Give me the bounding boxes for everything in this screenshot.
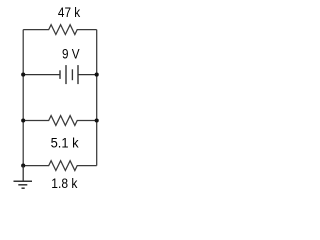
node: junction dot right middle row: [95, 118, 99, 122]
wire: battery right lead: [78, 74, 97, 76]
wire: right rail: [96, 30, 98, 166]
ground: [14, 166, 33, 189]
resistor 5.1 k (middle branch): [23, 116, 97, 126]
ground bar 3: [22, 187, 25, 189]
resistor 1.8 k (bottom branch): [23, 161, 97, 171]
node: junction dot right battery row: [95, 73, 99, 77]
battery plate medium: [71, 69, 73, 80]
battery 9 V: [23, 65, 97, 84]
wire: battery left lead: [23, 74, 60, 76]
svg-text:47 k: 47 k: [58, 4, 81, 20]
battery plate tall (outer right): [77, 65, 79, 84]
ground bar 2: [18, 184, 27, 186]
battery plate tall: [65, 65, 67, 84]
wire: left rail: [22, 30, 24, 166]
svg-text:5.1 k: 5.1 k: [51, 135, 80, 151]
svg-text:1.8 k: 1.8 k: [51, 175, 78, 191]
battery plate short (outer left): [59, 70, 61, 79]
resistor 47 k (top branch): [23, 25, 97, 35]
node: junction dot left middle row: [21, 118, 25, 122]
node: junction dot left bottom row (ground node): [21, 164, 25, 168]
wire: ground stub: [22, 166, 24, 182]
svg-text:9 V: 9 V: [62, 45, 80, 61]
ground bar 1: [14, 180, 33, 182]
node: junction dot left battery row: [21, 73, 25, 77]
